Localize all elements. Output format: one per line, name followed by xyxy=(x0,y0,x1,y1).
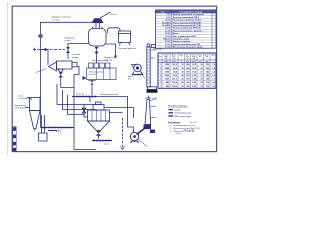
svg-text:Условные обознач.:: Условные обознач.: xyxy=(168,105,188,108)
svg-text:кг/ч: кг/ч xyxy=(186,58,189,60)
svg-text:12-01: 12-01 xyxy=(165,33,171,35)
svg-text:101,0: 101,0 xyxy=(172,79,178,81)
svg-text:Всю арматуру см. по сп.: Всю арматуру см. по сп. xyxy=(174,125,197,127)
svg-text:кг/ч: кг/ч xyxy=(186,61,189,63)
svg-text:в канализ.: в канализ. xyxy=(18,98,29,100)
svg-text:Мельница струйная УСМ-1: Мельница струйная УСМ-1 xyxy=(173,19,203,22)
svg-text:Фильтр рукавный: Фильтр рукавный xyxy=(101,93,119,96)
svg-text:Расх.: Расх. xyxy=(186,54,190,56)
svg-text:Скор.: Скор. xyxy=(198,54,202,56)
svg-text:очистка: очистка xyxy=(76,94,85,96)
svg-text:15-01: 15-01 xyxy=(165,41,171,43)
svg-text:Дозатор шнековый СВ-2: Дозатор шнековый СВ-2 xyxy=(173,16,200,19)
svg-text:Насос вакуумный НВ-50М: Насос вакуумный НВ-50М xyxy=(173,21,201,24)
svg-text:сырья: сырья xyxy=(65,40,72,42)
svg-text:м3/ч: м3/ч xyxy=(164,61,168,63)
svg-text:м/с: м/с xyxy=(199,61,202,63)
svg-text:101,3: 101,3 xyxy=(172,64,178,66)
svg-text:17-01: 17-01 xyxy=(165,47,171,49)
svg-text:см. л.2: см. л.2 xyxy=(190,122,197,124)
svg-text:АБВ линия барды: АБВ линия барды xyxy=(175,115,192,118)
svg-text:г/м3: г/м3 xyxy=(192,61,196,63)
svg-text:воздух: воздух xyxy=(175,109,181,111)
svg-text:Насос вакуумный НВ-75М: Насос вакуумный НВ-75М xyxy=(173,24,201,27)
svg-text:Фильтр рукавный ФРИ-30: Фильтр рукавный ФРИ-30 xyxy=(173,27,202,30)
svg-text:Циклон разгрузочный ЦН: Циклон разгрузочный ЦН xyxy=(173,43,201,46)
svg-text:Давл.: Давл. xyxy=(172,54,176,56)
svg-text:10-06: 10-06 xyxy=(165,28,171,30)
svg-text:Прим.: Прим. xyxy=(211,54,216,56)
svg-text:13-01: 13-01 xyxy=(165,36,171,38)
svg-text:м/с: м/с xyxy=(199,56,201,58)
svg-text:возд.: возд. xyxy=(164,56,168,58)
svg-text:Спецификация оборуд.: Спецификация оборуд. xyxy=(179,11,203,14)
svg-text:16-01: 16-01 xyxy=(165,44,171,46)
svg-text:Подача А: Подача А xyxy=(65,37,75,40)
svg-text:кл. В: кл. В xyxy=(176,133,181,135)
svg-text:Сборник слива: Сборник слива xyxy=(173,38,190,41)
svg-text:м3/ч: м3/ч xyxy=(164,58,167,60)
svg-text:1-01: 1-01 xyxy=(166,14,171,16)
svg-text:Вентилятор высокого давл.: Вентилятор высокого давл. xyxy=(173,47,204,49)
svg-text:от пыли: от пыли xyxy=(52,19,61,21)
svg-text:11-01: 11-01 xyxy=(165,30,171,32)
svg-text:Воздух на очистку: Воздух на очистку xyxy=(52,17,71,19)
svg-text:10-04/05: 10-04/05 xyxy=(162,24,171,27)
svg-text:Сжатый: Сжатый xyxy=(72,53,81,56)
svg-text:Объем: Объем xyxy=(164,54,169,56)
svg-text:поз.10: поз.10 xyxy=(110,14,117,16)
svg-text:Конц.: Конц. xyxy=(192,54,196,56)
svg-text:Весовой дозатор: Весовой дозатор xyxy=(119,47,137,50)
svg-text:г/м3: г/м3 xyxy=(192,58,195,60)
svg-text:материала: материала xyxy=(15,108,27,110)
svg-text:мм: мм xyxy=(206,56,208,58)
svg-text:105,8: 105,8 xyxy=(172,82,178,84)
svg-text:Диам.: Диам. xyxy=(205,54,210,56)
svg-text:Емкость мерная: Емкость мерная xyxy=(173,41,191,43)
svg-text:исх. А: исх. А xyxy=(90,73,97,76)
svg-text:Элеватор: Элеватор xyxy=(153,49,163,51)
svg-text:14Ф-01: 14Ф-01 xyxy=(163,38,171,41)
svg-text:Весы: Весы xyxy=(173,33,179,35)
svg-text:Темп.: Темп. xyxy=(179,54,184,56)
svg-text:Поз: Поз xyxy=(159,56,162,58)
svg-text:Поз.: Поз. xyxy=(161,12,166,14)
svg-text:Насос шламовый - франко: Насос шламовый - франко xyxy=(173,29,203,32)
svg-text:10-02/03: 10-02/03 xyxy=(162,22,171,24)
svg-text:Щит управления ЩУ1: Щит управления ЩУ1 xyxy=(173,36,197,38)
svg-text:кПа: кПа xyxy=(173,58,176,60)
svg-text:2-01: 2-01 xyxy=(166,17,171,19)
svg-text:Лист 1 из 2: Лист 1 из 2 xyxy=(184,130,195,132)
svg-text:10-01: 10-01 xyxy=(165,20,171,22)
svg-text:108,0: 108,0 xyxy=(172,86,178,88)
svg-text:Классификатор: Классификатор xyxy=(92,59,109,62)
svg-text:шнек: шнек xyxy=(104,143,109,145)
svg-text:пыли: пыли xyxy=(192,56,196,58)
svg-text:Требования:: Требования: xyxy=(168,121,181,124)
svg-text:воздух: воздух xyxy=(72,57,80,59)
svg-text:Бункер приемный исходный: Бункер приемный исходный xyxy=(173,13,205,16)
svg-text:ПСВ (воздуховод): ПСВ (воздуховод) xyxy=(175,113,192,115)
